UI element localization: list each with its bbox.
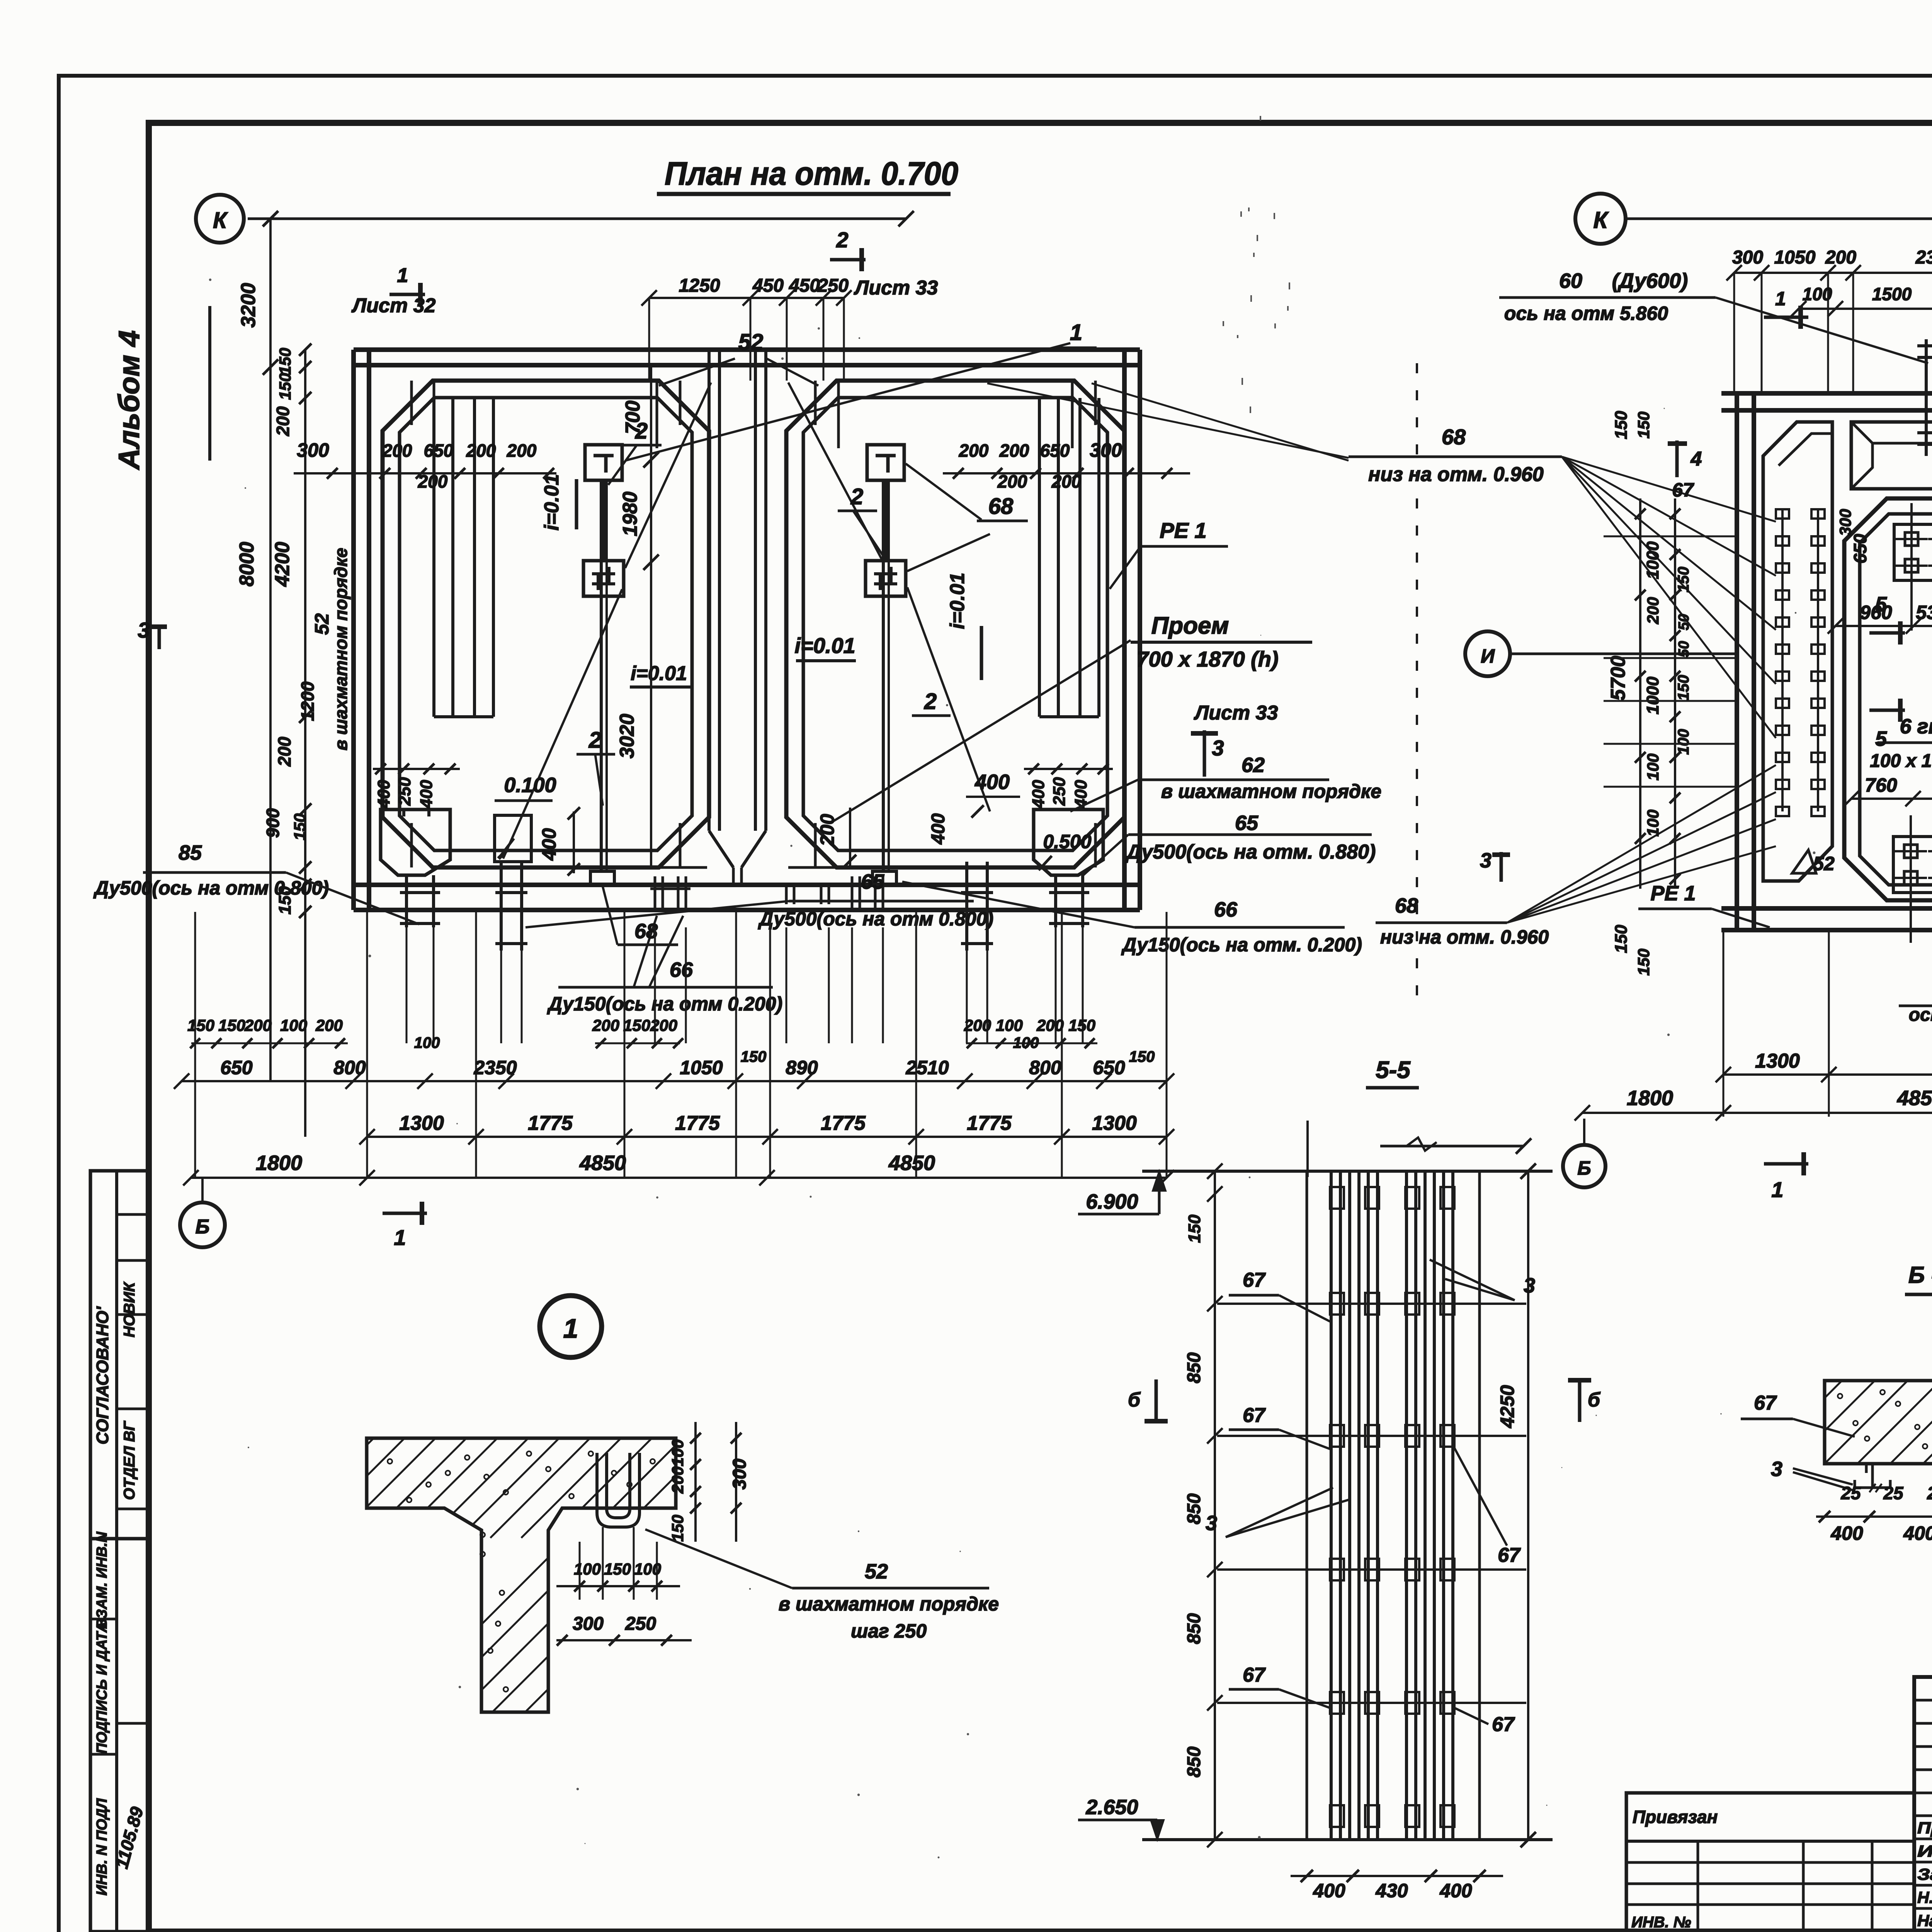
flag 3 left of plan bbox=[138, 618, 167, 649]
section marker б left bbox=[1128, 1379, 1168, 1422]
axis K line right bbox=[1626, 211, 1932, 226]
svg-text:650: 650 bbox=[220, 1057, 253, 1078]
tank1 baffle wall bbox=[434, 398, 493, 717]
left plan tank 2 chamber bbox=[786, 381, 1124, 867]
svg-text:Инж.Iк: Инж.Iк bbox=[1917, 1842, 1932, 1860]
svg-text:100: 100 bbox=[1644, 810, 1662, 837]
rotated dims inside right plan bbox=[1836, 509, 1932, 971]
svg-text:68: 68 bbox=[988, 494, 1014, 519]
elevation 2.650 bbox=[1078, 1796, 1164, 1840]
leader lines left plan bbox=[503, 343, 1131, 859]
label 62 в шахматном порядке bbox=[1070, 753, 1381, 811]
label 68 tank2 bbox=[977, 494, 1028, 521]
svg-text:Лист 32: Лист 32 bbox=[351, 294, 436, 317]
svg-text:Ду500(ось на отм. 0.880): Ду500(ось на отм. 0.880) bbox=[1125, 841, 1376, 863]
svg-text:низ на отм. 0.960: низ на отм. 0.960 bbox=[1368, 463, 1544, 486]
section 5-5 bar group right bbox=[1406, 1171, 1453, 1840]
svg-text:3200: 3200 bbox=[237, 283, 260, 328]
svg-text:б: б bbox=[1128, 1389, 1141, 1411]
svg-text:200: 200 bbox=[959, 440, 989, 461]
svg-text:200: 200 bbox=[999, 440, 1029, 461]
dims 400 250 400 left bottom bbox=[373, 764, 460, 809]
svg-text:200: 200 bbox=[273, 406, 293, 436]
svg-text:450: 450 bbox=[789, 276, 820, 296]
svg-text:150: 150 bbox=[1634, 412, 1653, 439]
label Лист 33 / flag 3 right side bbox=[1191, 702, 1278, 777]
svg-text:300: 300 bbox=[573, 1614, 604, 1634]
svg-text:8000: 8000 bbox=[236, 542, 258, 587]
label 68 bottom tank1 bbox=[603, 887, 678, 945]
svg-text:400: 400 bbox=[1029, 780, 1048, 809]
svg-text:i=0.01: i=0.01 bbox=[541, 474, 563, 531]
svg-text:900: 900 bbox=[263, 808, 283, 838]
section marker б right bbox=[1568, 1379, 1601, 1422]
svg-text:4850: 4850 bbox=[579, 1151, 626, 1175]
svg-text:150: 150 bbox=[668, 1515, 687, 1542]
svg-text:100: 100 bbox=[1803, 284, 1832, 304]
svg-text:25: 25 bbox=[1840, 1483, 1861, 1503]
svg-text:4250: 4250 bbox=[1497, 1385, 1518, 1428]
dashed axis line between plans bbox=[1416, 363, 1418, 1012]
strip text ИНВ N ПОДЛ bbox=[94, 1798, 110, 1895]
label 66 Ду150 bottom right bbox=[902, 882, 1362, 956]
section 5 flags in chamber bbox=[1869, 593, 1905, 750]
flag 1 below top chain right plan bbox=[1764, 288, 1808, 329]
svg-text:100: 100 bbox=[280, 1016, 307, 1034]
svg-text:50: 50 bbox=[1676, 641, 1692, 657]
dim 400 near step right bbox=[928, 770, 1020, 845]
svg-text:67: 67 bbox=[1672, 479, 1694, 501]
label 60 Ду600 top-left bbox=[1499, 269, 1928, 363]
svg-text:1775: 1775 bbox=[528, 1112, 573, 1134]
right pit 0.500 bbox=[1034, 810, 1103, 875]
svg-text:ОТДЕЛ ВГ: ОТДЕЛ ВГ bbox=[121, 1420, 138, 1500]
svg-text:850: 850 bbox=[1184, 1493, 1204, 1524]
svg-text:1300: 1300 bbox=[1092, 1112, 1137, 1134]
svg-text:250: 250 bbox=[817, 276, 849, 296]
tank1 sluice gate upper bbox=[585, 445, 622, 480]
svg-text:50: 50 bbox=[1676, 614, 1692, 630]
svg-text:67: 67 bbox=[1498, 1544, 1521, 1566]
strip text ВЗАМ ИНВ N bbox=[94, 1531, 110, 1629]
fan leaders from 68 upper bbox=[1562, 457, 1776, 738]
chain 760 1480 760 left bbox=[1844, 774, 1932, 806]
svg-text:(Ду600): (Ду600) bbox=[1612, 269, 1688, 293]
label 66 Ду150 bottom center bbox=[547, 916, 782, 1015]
svg-text:650: 650 bbox=[424, 440, 454, 461]
section 5-5 title bbox=[1366, 1057, 1419, 1088]
svg-text:1800: 1800 bbox=[1627, 1087, 1673, 1110]
svg-text:100: 100 bbox=[996, 1016, 1023, 1034]
svg-text:2: 2 bbox=[836, 228, 848, 252]
flag 1 bottom right plan bbox=[1764, 1152, 1808, 1202]
tank1 corner pockets bbox=[412, 381, 680, 867]
svg-text:3: 3 bbox=[1771, 1458, 1782, 1481]
svg-text:67: 67 bbox=[1754, 1392, 1777, 1414]
svg-text:Проем: Проем bbox=[1151, 612, 1229, 639]
label i=0.01 tank2 a bbox=[794, 633, 856, 661]
svg-text:ПОДПИСЬ И ДАТА: ПОДПИСЬ И ДАТА bbox=[94, 1622, 110, 1754]
svg-text:200: 200 bbox=[668, 1466, 687, 1494]
svg-text:б: б bbox=[1588, 1389, 1601, 1411]
svg-text:65: 65 bbox=[1235, 811, 1259, 835]
pipe Ду600 left bbox=[1917, 339, 1932, 456]
label 1 top bbox=[1059, 320, 1097, 348]
strip text ОТДЕЛ ВГ НОВИК bbox=[121, 1281, 138, 1500]
svg-text:66: 66 bbox=[670, 958, 693, 981]
svg-text:200: 200 bbox=[1644, 597, 1662, 624]
svg-text:200: 200 bbox=[507, 440, 537, 461]
svg-text:100: 100 bbox=[1644, 753, 1662, 781]
svg-text:2: 2 bbox=[850, 484, 863, 509]
svg-text:400: 400 bbox=[1903, 1522, 1932, 1544]
svg-text:РЕ 1: РЕ 1 bbox=[1160, 518, 1206, 543]
svg-text:100: 100 bbox=[634, 1560, 661, 1578]
extension lines below left plan bbox=[195, 912, 1167, 1178]
step box 0.100 bbox=[495, 774, 556, 862]
svg-text:68: 68 bbox=[1442, 425, 1466, 449]
section 5-5 left dim line bbox=[1184, 1163, 1223, 1847]
svg-text:4850: 4850 bbox=[1897, 1087, 1932, 1110]
label 67 s55 right a bbox=[1453, 1445, 1536, 1570]
svg-text:i=0.01: i=0.01 bbox=[631, 662, 687, 685]
svg-text:200: 200 bbox=[1051, 471, 1082, 492]
label 3 s55 right bbox=[1430, 1260, 1535, 1300]
axis K circle left bbox=[196, 195, 244, 243]
bottom chain row3 bbox=[359, 1112, 1174, 1145]
label 3 s55 left bbox=[1206, 1488, 1350, 1537]
svg-text:1050: 1050 bbox=[1774, 247, 1816, 268]
svg-text:ось на отм. 5.960: ось на отм. 5.960 bbox=[1909, 1005, 1932, 1025]
svg-text:400: 400 bbox=[975, 770, 1010, 794]
svg-text:200: 200 bbox=[418, 471, 448, 492]
tank2 pipe riser bbox=[872, 480, 896, 884]
bottom chain row2 bbox=[174, 1048, 1174, 1089]
svg-text:150: 150 bbox=[741, 1048, 767, 1065]
label 2 tank1 upper bbox=[622, 418, 662, 445]
section 5-5 bar group left bbox=[1331, 1171, 1378, 1840]
svg-text:200: 200 bbox=[997, 471, 1027, 492]
svg-text:700 х 1870 (h): 700 х 1870 (h) bbox=[1136, 647, 1278, 671]
svg-text:150: 150 bbox=[218, 1016, 245, 1034]
right plan top-left opening bbox=[1851, 422, 1932, 489]
left dim columns right plan bbox=[1607, 411, 1692, 976]
svg-text:650: 650 bbox=[1040, 440, 1070, 461]
svg-text:62: 62 bbox=[1242, 753, 1265, 777]
svg-text:Зав гр.: Зав гр. bbox=[1917, 1865, 1932, 1883]
svg-text:2350: 2350 bbox=[473, 1057, 517, 1078]
tank2 sluice gate lower bbox=[866, 561, 906, 596]
svg-text:2350: 2350 bbox=[1915, 247, 1932, 268]
svg-text:400: 400 bbox=[1313, 1880, 1345, 1901]
label 67 s55 a bbox=[1229, 1269, 1330, 1321]
svg-text:ВЗАМ. ИНВ.N: ВЗАМ. ИНВ.N bbox=[94, 1531, 110, 1629]
svg-text:400: 400 bbox=[417, 780, 436, 809]
tank2 baffle wall bbox=[1039, 398, 1099, 717]
svg-text:67: 67 bbox=[1243, 1664, 1266, 1686]
flag 2 top left plan bbox=[830, 228, 866, 271]
svg-text:200: 200 bbox=[382, 440, 412, 461]
svg-text:150: 150 bbox=[276, 348, 294, 375]
tank2 corner pockets bbox=[815, 381, 1095, 867]
svg-text:150: 150 bbox=[623, 1016, 650, 1034]
left plan tank 1 chamber bbox=[383, 381, 709, 867]
bolt plate bottom-left bbox=[1893, 815, 1932, 943]
svg-text:200: 200 bbox=[592, 1016, 619, 1034]
svg-text:250: 250 bbox=[625, 1614, 656, 1634]
left pit pipe bbox=[400, 875, 440, 927]
svg-text:850: 850 bbox=[1184, 1747, 1204, 1777]
svg-text:1: 1 bbox=[1775, 288, 1786, 310]
label 6 гнезд left bbox=[1870, 715, 1932, 846]
extension lines below right plan bbox=[1723, 930, 1932, 1117]
detail 1 lower dims 100 150 100 bbox=[556, 1527, 680, 1600]
left plan tank1 bottom inner lines bbox=[498, 866, 1028, 869]
svg-text:ось на отм 5.860: ось на отм 5.860 bbox=[1504, 303, 1668, 324]
label 52 with leaders bbox=[738, 330, 764, 355]
rotated label в шахматном порядке bbox=[331, 548, 351, 751]
svg-text:400: 400 bbox=[374, 780, 393, 809]
tank1 bottom stubs bbox=[650, 876, 690, 912]
svg-text:низ на отм. 0.960: низ на отм. 0.960 bbox=[1380, 926, 1549, 948]
fan leaders from 68 lower bbox=[1507, 765, 1776, 923]
svg-text:Б: Б bbox=[1577, 1157, 1591, 1179]
svg-text:ИНВ. N ПОДЛ: ИНВ. N ПОДЛ bbox=[94, 1798, 110, 1895]
svg-text:i=0.01: i=0.01 bbox=[794, 633, 855, 658]
section Б-Б title bbox=[1905, 1262, 1932, 1294]
svg-text:100 х 100х350(h): 100 х 100х350(h) bbox=[1870, 751, 1932, 771]
section 5-5 right dim 4250 bbox=[1497, 1163, 1536, 1847]
svg-text:1050: 1050 bbox=[680, 1057, 723, 1078]
svg-text:300: 300 bbox=[730, 1459, 750, 1490]
strip handwritten 1105.89 bbox=[111, 1804, 147, 1871]
section Б-Б dims 25 bbox=[1840, 1483, 1932, 1503]
strip text СОГЛАСОВАНО bbox=[93, 1306, 112, 1444]
label РЕ 1 right plan bbox=[1638, 882, 1770, 927]
svg-text:4200: 4200 bbox=[271, 542, 294, 587]
svg-text:2: 2 bbox=[924, 689, 937, 714]
tank2 sluice gate upper bbox=[867, 445, 904, 480]
svg-text:НОВИК: НОВИК bbox=[121, 1281, 138, 1337]
svg-text:6 гнезд: 6 гнезд bbox=[1900, 715, 1932, 738]
svg-text:200: 200 bbox=[274, 736, 294, 767]
svg-text:1980: 1980 bbox=[619, 492, 641, 536]
bottom chain right plan row2 bbox=[1575, 1087, 1932, 1121]
top dim chain 1250 450 450 250 bbox=[641, 276, 852, 381]
svg-text:150: 150 bbox=[187, 1016, 214, 1034]
label 67 s55 c bbox=[1229, 1664, 1330, 1708]
svg-text:1300: 1300 bbox=[1755, 1050, 1800, 1072]
svg-text:800: 800 bbox=[1029, 1057, 1061, 1078]
svg-text:67: 67 bbox=[1243, 1404, 1266, 1427]
svg-text:700: 700 bbox=[622, 401, 644, 434]
right pit pipe bbox=[1049, 875, 1089, 927]
svg-text:850: 850 bbox=[1184, 1352, 1204, 1383]
svg-text:2510: 2510 bbox=[905, 1057, 949, 1078]
svg-text:300: 300 bbox=[1732, 247, 1763, 268]
svg-text:3: 3 bbox=[1480, 849, 1492, 872]
svg-text:1: 1 bbox=[563, 1313, 578, 1344]
label 52 flag left chamber bbox=[1792, 850, 1835, 874]
svg-text:1000: 1000 bbox=[1643, 677, 1662, 714]
svg-text:3: 3 bbox=[1524, 1274, 1535, 1297]
svg-text:200: 200 bbox=[816, 814, 838, 847]
detail 1 circle bbox=[540, 1296, 602, 1357]
svg-text:150: 150 bbox=[1185, 1214, 1204, 1243]
svg-text:Ду500(ось на отм 0.800): Ду500(ось на отм 0.800) bbox=[93, 877, 329, 899]
dim 200 tank2 bottom bbox=[816, 808, 856, 867]
bottom chain row1 small numbers bbox=[187, 1016, 1097, 1051]
svg-text:150: 150 bbox=[1675, 567, 1692, 593]
svg-text:150: 150 bbox=[604, 1560, 631, 1578]
svg-text:Ду150(ось на отм 0.200): Ду150(ось на отм 0.200) bbox=[547, 993, 782, 1015]
svg-text:0.500: 0.500 bbox=[1043, 831, 1091, 852]
svg-text:100: 100 bbox=[1013, 1034, 1039, 1051]
section 5-5 top slab line bbox=[1142, 1170, 1553, 1173]
right step pipe bbox=[961, 862, 993, 951]
axis B circle right bbox=[1563, 1119, 1605, 1187]
section 5-5 bottom line bbox=[1142, 1838, 1553, 1841]
svg-text:1775: 1775 bbox=[821, 1112, 866, 1134]
long leaders from left plan to 68 label bbox=[987, 383, 1349, 461]
shaft bottom stubs bbox=[786, 883, 829, 904]
svg-text:Провер: Провер bbox=[1917, 1819, 1932, 1837]
svg-text:650: 650 bbox=[1093, 1057, 1125, 1078]
title block left box Привязан bbox=[1626, 1793, 1914, 1932]
label 62 Ду600 bottom bbox=[1899, 960, 1932, 1025]
svg-text:РЕ 1: РЕ 1 bbox=[1650, 882, 1696, 905]
svg-text:5-5: 5-5 bbox=[1376, 1057, 1411, 1083]
svg-text:Ду500(ось на отм 0.800): Ду500(ось на отм 0.800) bbox=[758, 908, 993, 930]
svg-text:3: 3 bbox=[1212, 736, 1224, 760]
svg-text:52: 52 bbox=[1813, 853, 1835, 874]
left dim column outer bbox=[236, 211, 333, 1137]
svg-text:25: 25 bbox=[1927, 1483, 1932, 1503]
svg-text:4: 4 bbox=[1690, 448, 1702, 470]
svg-text:68: 68 bbox=[1395, 894, 1418, 917]
svg-text:250: 250 bbox=[1050, 777, 1069, 806]
svg-text:400: 400 bbox=[538, 828, 560, 861]
section 5-5 clamp rows bbox=[1217, 1187, 1526, 1827]
svg-text:И: И bbox=[1481, 645, 1495, 667]
axis K circle right bbox=[1575, 194, 1626, 244]
section 5-5 bottom dims 400 430 400 bbox=[1291, 1870, 1503, 1901]
svg-text:Н. Конт.: Н. Конт. bbox=[1917, 1888, 1932, 1906]
label 85 Ду500 bottom left bbox=[93, 841, 419, 924]
svg-text:ИНВ. №: ИНВ. № bbox=[1631, 1914, 1691, 1931]
svg-text:100: 100 bbox=[414, 1034, 440, 1051]
label 65 Ду500 bottom mid bbox=[526, 870, 993, 930]
flag 3 left lower bbox=[1480, 849, 1510, 882]
top chain right plan row2 bbox=[1791, 284, 1932, 316]
svg-text:150: 150 bbox=[291, 813, 309, 840]
svg-text:1: 1 bbox=[397, 264, 408, 287]
detail 1 label 52 шаг 250 bbox=[645, 1529, 999, 1642]
svg-text:150: 150 bbox=[276, 373, 294, 400]
label i=0.01 tank2 b bbox=[946, 573, 981, 680]
detail 1 dims 300 250 bbox=[556, 1614, 692, 1646]
title block signature rows text bbox=[1917, 1819, 1932, 1930]
section 5-5 outer verticals bbox=[1307, 1171, 1480, 1840]
svg-text:650: 650 bbox=[1850, 534, 1870, 563]
right plan left narrow chamber bbox=[1763, 422, 1832, 881]
svg-text:Б - Б: Б - Б bbox=[1908, 1262, 1932, 1288]
section Б-Б slab with concrete hatch bbox=[1726, 1381, 1932, 1464]
bottom chain row4 bbox=[183, 1151, 1174, 1185]
svg-text:1500: 1500 bbox=[1872, 284, 1912, 304]
label РЕ 1 left plan bbox=[1110, 518, 1228, 589]
left pit (sump) tank1 bbox=[381, 810, 450, 875]
svg-text:430: 430 bbox=[1375, 1880, 1408, 1901]
dim 400 near step left bbox=[538, 807, 580, 876]
label i=0.01 tank1 b bbox=[630, 662, 692, 687]
tank2 bottom stubs bbox=[852, 876, 883, 910]
svg-text:150: 150 bbox=[1612, 411, 1631, 439]
svg-text:5: 5 bbox=[1875, 593, 1887, 616]
label 67 s55 b bbox=[1229, 1404, 1330, 1449]
svg-text:2.650: 2.650 bbox=[1085, 1796, 1138, 1819]
svg-text:150: 150 bbox=[1634, 949, 1653, 976]
svg-text:3: 3 bbox=[138, 618, 150, 642]
svg-text:150: 150 bbox=[1068, 1016, 1095, 1034]
svg-text:2: 2 bbox=[588, 728, 601, 753]
axis K line left bbox=[248, 211, 914, 226]
svg-text:800: 800 bbox=[333, 1057, 366, 1078]
svg-text:Ду150(ось на отм. 0.200): Ду150(ось на отм. 0.200) bbox=[1121, 934, 1362, 956]
label 2 tank2 upper bbox=[838, 484, 877, 511]
svg-text:52: 52 bbox=[865, 1560, 888, 1583]
svg-text:1800: 1800 bbox=[256, 1151, 302, 1175]
dims 400 250 400 right bottom bbox=[1024, 764, 1113, 809]
label 67 бб left bbox=[1741, 1392, 1855, 1437]
label 2 tank2 lower bbox=[912, 689, 951, 716]
flag 4 left bbox=[1668, 440, 1702, 477]
svg-text:200: 200 bbox=[1036, 1016, 1064, 1034]
svg-text:5700: 5700 bbox=[1607, 656, 1629, 701]
svg-text:1000: 1000 bbox=[1643, 541, 1662, 579]
vertical dim line x=1685 (700/1980/3020) bbox=[616, 367, 659, 869]
svg-text:6.900: 6.900 bbox=[1086, 1190, 1138, 1213]
tank1 pipe riser bbox=[590, 480, 614, 884]
svg-text:1: 1 bbox=[1070, 320, 1082, 345]
svg-text:Привязан: Привязан bbox=[1633, 1807, 1718, 1827]
right plan left-side extension lines bbox=[1604, 536, 1737, 787]
flag 1 bottom left plan bbox=[383, 1202, 427, 1250]
svg-text:i=0.01: i=0.01 bbox=[946, 573, 969, 629]
svg-text:100: 100 bbox=[668, 1439, 687, 1466]
label 2 tank1 lower bbox=[577, 728, 615, 754]
label Проем 700x1870 bbox=[1131, 612, 1312, 671]
detail 1 concrete tee section bbox=[274, 1414, 892, 1839]
mid dim chain right plan bbox=[1828, 602, 1932, 634]
svg-text:Лист 33: Лист 33 bbox=[1194, 702, 1278, 724]
svg-text:890: 890 bbox=[786, 1057, 818, 1078]
right plan mid-left chamber bbox=[1844, 498, 1932, 900]
tank1 sluice gate lower bbox=[583, 561, 624, 596]
svg-text:1250: 1250 bbox=[679, 276, 720, 296]
svg-text:Нач.отд: Нач.отд bbox=[1917, 1912, 1932, 1930]
right plan outer walls bbox=[1721, 393, 1932, 930]
svg-text:1: 1 bbox=[394, 1225, 406, 1250]
detail 1 u-channel anchor bbox=[597, 1453, 639, 1527]
svg-text:450: 450 bbox=[752, 276, 784, 296]
svg-text:150: 150 bbox=[1612, 925, 1631, 953]
svg-text:1775: 1775 bbox=[675, 1112, 720, 1134]
section 5-5 top dim line with break mark bbox=[1308, 1121, 1531, 1177]
svg-text:СОГЛАСОВАНО': СОГЛАСОВАНО' bbox=[93, 1306, 112, 1444]
elevation 6.900 bbox=[1078, 1171, 1166, 1214]
svg-text:760: 760 bbox=[1865, 774, 1897, 796]
